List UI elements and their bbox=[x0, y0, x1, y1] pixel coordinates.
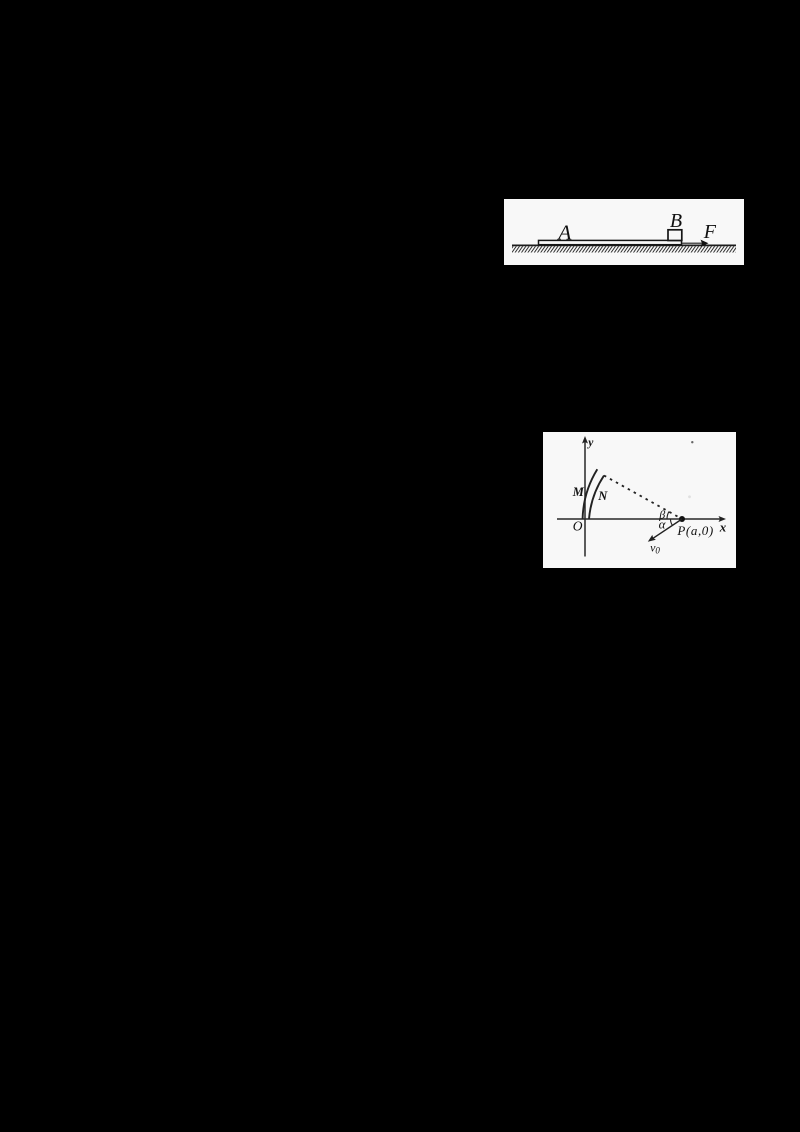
arc N bbox=[589, 476, 604, 520]
y axis bbox=[584, 441, 586, 557]
block B bbox=[668, 230, 682, 241]
svg-text:A: A bbox=[556, 220, 572, 244]
svg-text:α: α bbox=[659, 517, 667, 532]
svg-text:F: F bbox=[703, 221, 717, 243]
arc M bbox=[583, 469, 598, 519]
svg-text:N: N bbox=[597, 489, 608, 503]
svg-text:B: B bbox=[670, 210, 682, 232]
figure panel 1: block B on plank A pulled by force F on ground bbox=[504, 199, 744, 265]
svg-text:y: y bbox=[586, 437, 594, 449]
v0 arrow bbox=[652, 519, 683, 539]
svg-text:x: x bbox=[719, 520, 727, 535]
plank A bbox=[539, 240, 682, 244]
svg-text:O: O bbox=[573, 519, 583, 534]
alpha angle mark bbox=[670, 519, 672, 525]
dotted radius line bbox=[604, 476, 682, 520]
force F arrow bbox=[682, 242, 703, 244]
svg-text:P(a,0): P(a,0) bbox=[676, 523, 713, 538]
x axis bbox=[557, 518, 722, 520]
speck artifact bbox=[691, 441, 693, 443]
ground hatching bbox=[512, 246, 736, 252]
svg-text:v0: v0 bbox=[650, 541, 660, 556]
point P bbox=[679, 516, 685, 522]
ground line bbox=[512, 244, 736, 246]
svg-text:M: M bbox=[572, 485, 585, 499]
beta angle mark bbox=[667, 512, 669, 520]
figure panel 2: x-y axes, arcs M N, point P(a,0), velocity v0 bbox=[543, 432, 736, 568]
